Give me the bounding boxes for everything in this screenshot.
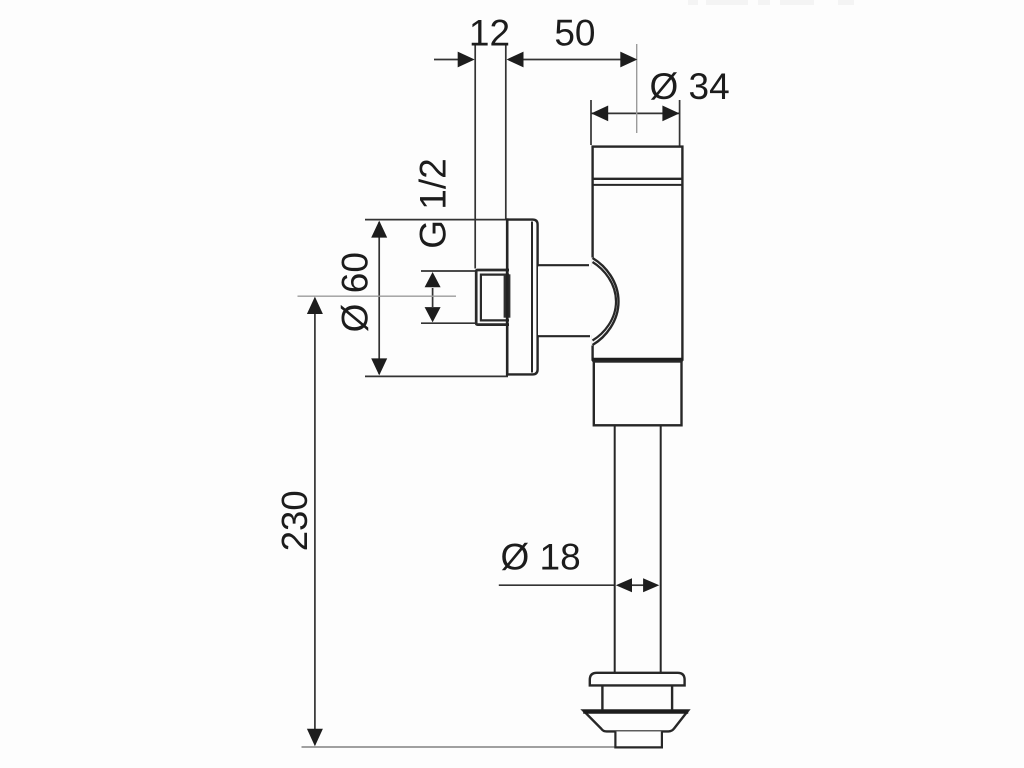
svg-text:12: 12 (469, 12, 510, 53)
svg-text:Ø 60: Ø 60 (335, 252, 376, 332)
svg-text:Ø 18: Ø 18 (501, 537, 581, 578)
svg-text:230: 230 (274, 490, 315, 551)
svg-text:G 1/2: G 1/2 (413, 158, 454, 249)
svg-text:50: 50 (554, 13, 595, 54)
svg-text:Ø 34: Ø 34 (650, 66, 730, 107)
